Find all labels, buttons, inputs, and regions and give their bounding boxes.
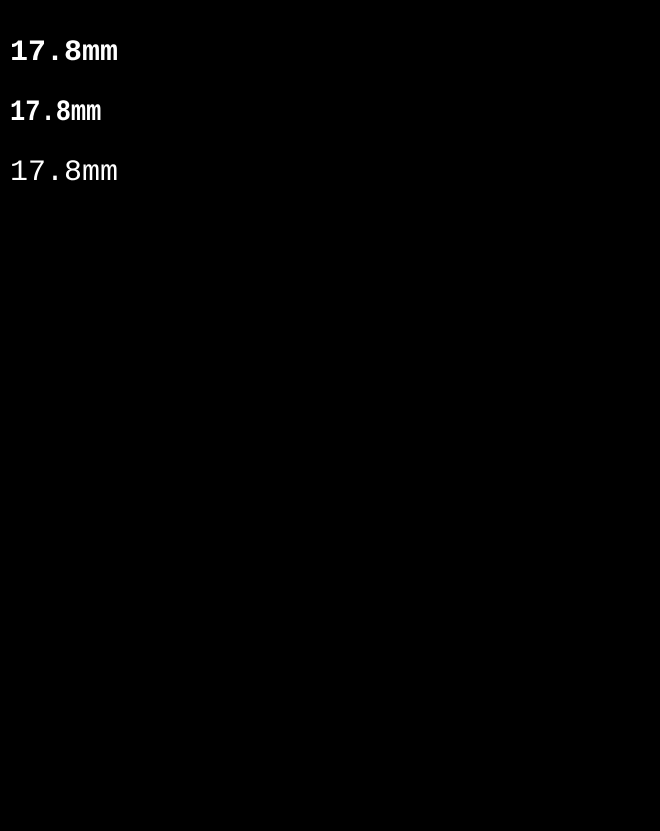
- svg-text:17.8mm: 17.8mm: [10, 156, 118, 190]
- svg-text:17.8mm: 17.8mm: [10, 96, 101, 130]
- svg-text:17.8mm: 17.8mm: [10, 36, 118, 70]
